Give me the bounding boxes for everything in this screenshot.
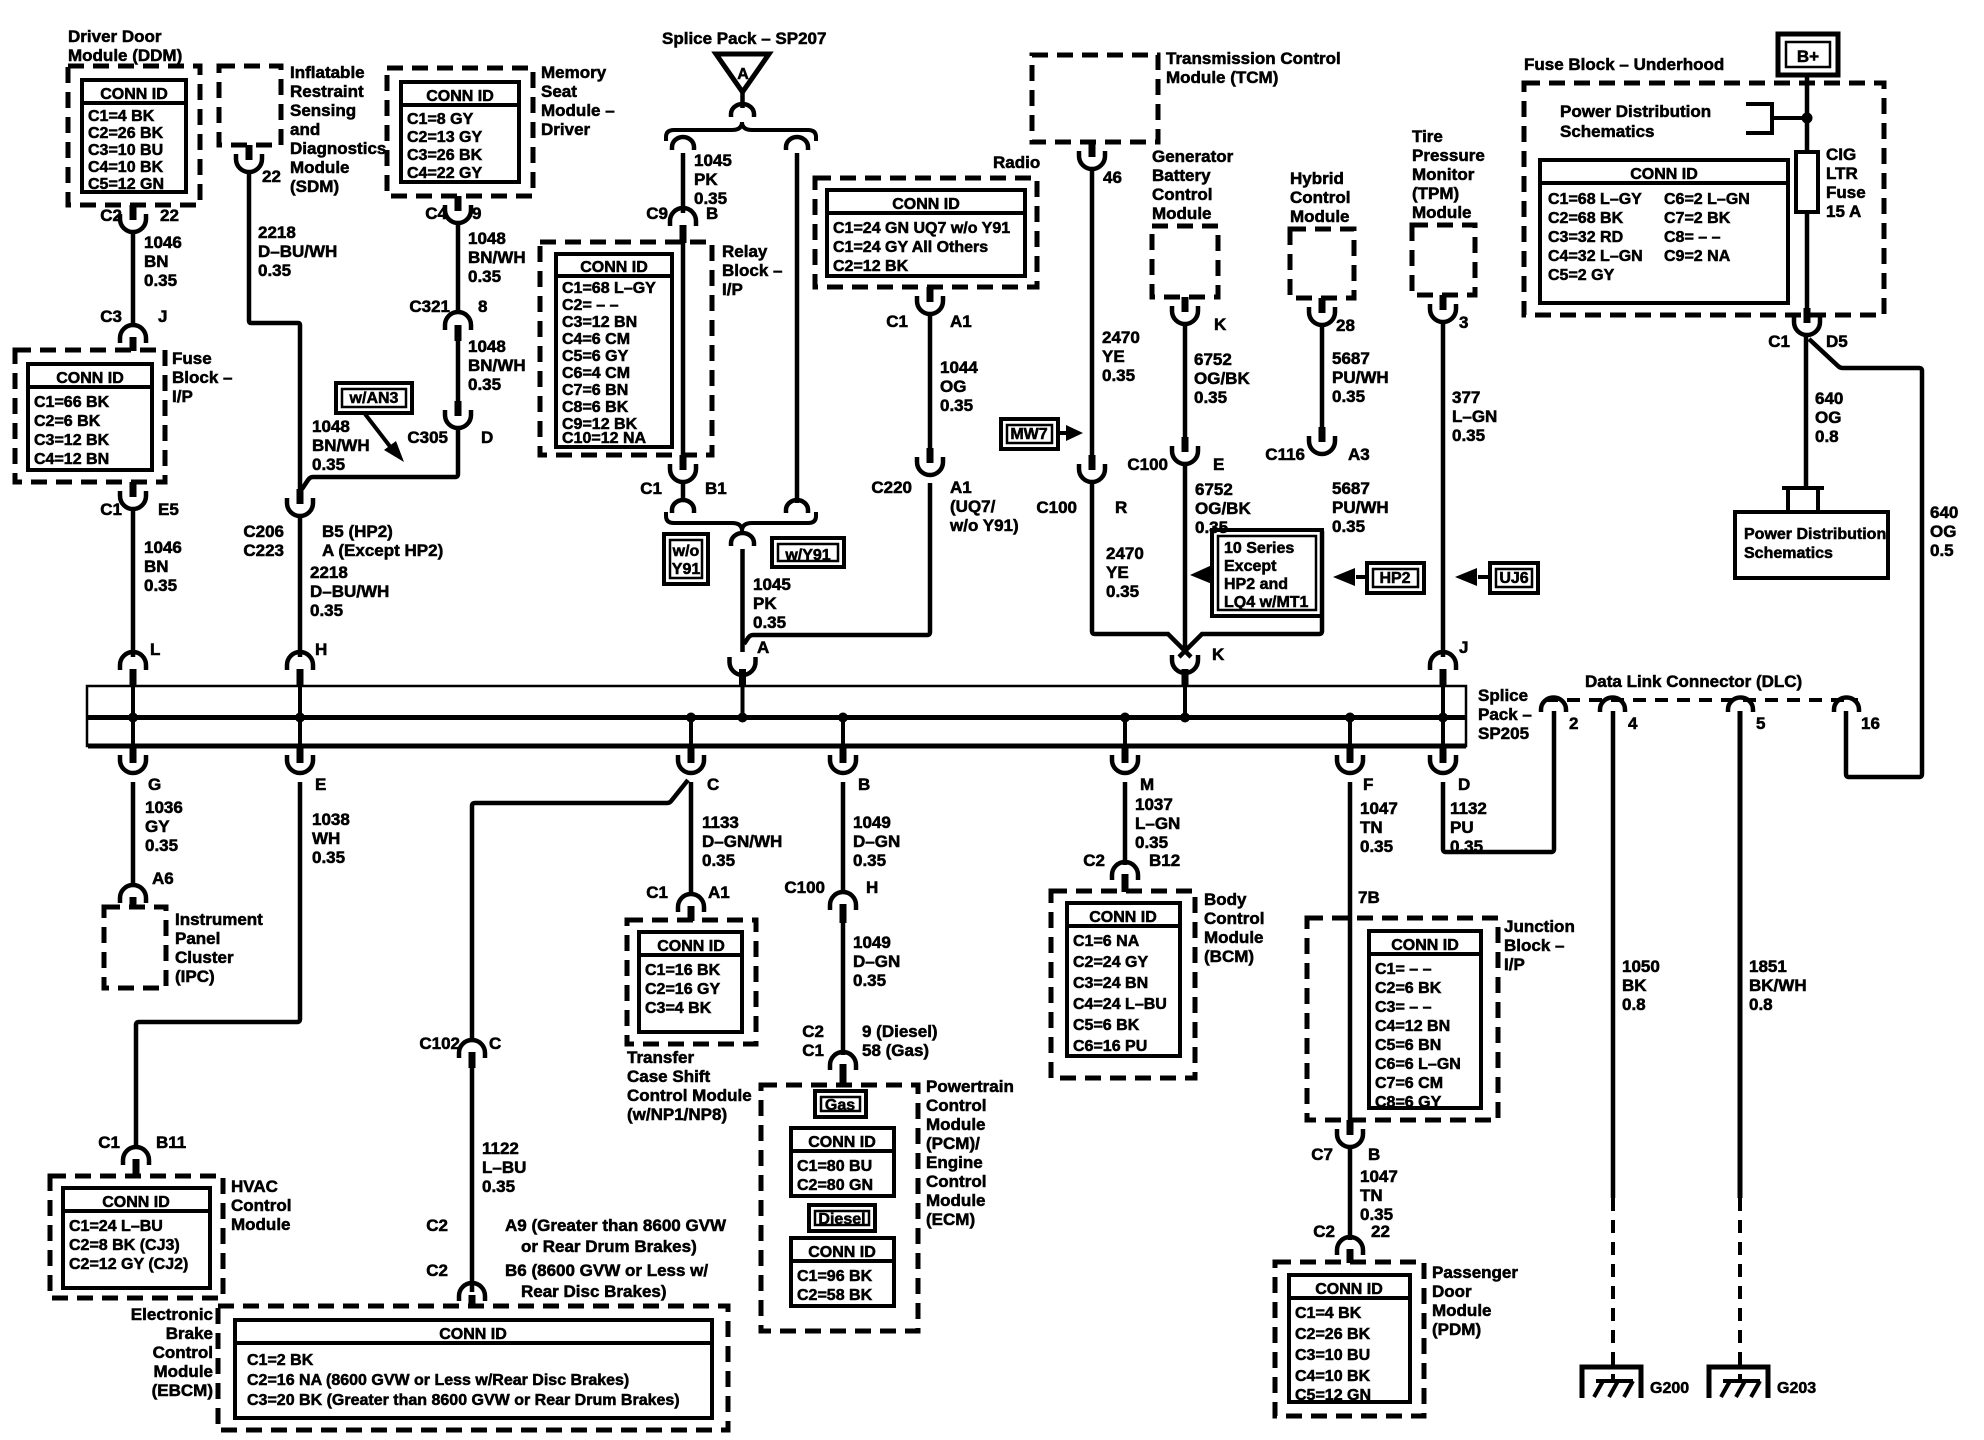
svg-text:0.35: 0.35	[1135, 833, 1168, 852]
EBCM CONN ID table	[235, 1320, 712, 1418]
svg-text:C1= – –: C1= – –	[1375, 961, 1432, 978]
wire 1038 WH	[136, 782, 300, 1146]
svg-text:640: 640	[1815, 389, 1843, 408]
wire 1048 BN/WH (lower)	[456, 341, 461, 401]
wire from C305 to C206 junction	[302, 428, 458, 489]
svg-text:0.35: 0.35	[1360, 837, 1393, 856]
svg-text:BN/WH: BN/WH	[312, 436, 370, 455]
Memory Seat CONN ID table	[401, 82, 519, 182]
svg-text:Fuse: Fuse	[172, 349, 212, 368]
svg-text:7B: 7B	[1358, 888, 1380, 907]
svg-text:C1: C1	[802, 1041, 824, 1060]
svg-text:0.35: 0.35	[310, 601, 343, 620]
power node B+ box	[1778, 34, 1838, 75]
svg-text:C1=4 BK: C1=4 BK	[88, 108, 155, 125]
svg-text:LQ4 w/MT1: LQ4 w/MT1	[1224, 594, 1309, 611]
svg-text:Control Module: Control Module	[627, 1086, 752, 1105]
svg-text:C8=6 GY: C8=6 GY	[1375, 1094, 1442, 1111]
svg-text:A1: A1	[950, 312, 972, 331]
svg-text:0.35: 0.35	[1450, 837, 1483, 856]
svg-text:Except: Except	[1224, 558, 1277, 575]
svg-text:OG/BK: OG/BK	[1194, 369, 1250, 388]
svg-text:and: and	[290, 120, 320, 139]
svg-text:C1=68 L–GY: C1=68 L–GY	[562, 280, 656, 297]
svg-text:Block –: Block –	[1504, 936, 1564, 955]
svg-text:0.35: 0.35	[1102, 366, 1135, 385]
svg-text:TN: TN	[1360, 1186, 1383, 1205]
svg-text:(IPC): (IPC)	[175, 967, 215, 986]
svg-text:Splice: Splice	[1478, 686, 1528, 705]
svg-text:K: K	[1212, 645, 1225, 664]
svg-text:D5: D5	[1826, 332, 1848, 351]
svg-text:Diesel: Diesel	[818, 1211, 865, 1228]
svg-text:377: 377	[1452, 388, 1480, 407]
svg-text:C1: C1	[646, 883, 668, 902]
svg-text:L–GN: L–GN	[1452, 407, 1497, 426]
brace upper (splits into two wires)	[666, 122, 816, 141]
option box 10 Series Except HP2 and LQ4 w/MT1	[1212, 530, 1322, 616]
bracket to power distribution (top)	[1746, 104, 1772, 133]
svg-text:Y91: Y91	[672, 561, 701, 578]
svg-text:CIG: CIG	[1826, 145, 1856, 164]
svg-text:C2=6 BK: C2=6 BK	[34, 413, 101, 430]
svg-text:C9=2 NA: C9=2 NA	[1664, 248, 1731, 265]
wire 1046 BN (to splice pack L)	[131, 509, 136, 657]
svg-text:CONN ID: CONN ID	[808, 1134, 876, 1151]
splice pack SP207 triangle A	[716, 54, 769, 92]
svg-text:H: H	[315, 640, 327, 659]
svg-text:A1: A1	[950, 478, 972, 497]
svg-text:C7: C7	[1311, 1145, 1333, 1164]
svg-text:L–BU: L–BU	[482, 1158, 526, 1177]
svg-text:C3= – –: C3= – –	[1375, 999, 1432, 1016]
svg-text:0.8: 0.8	[1749, 995, 1773, 1014]
wire 1045 PK left branch	[681, 153, 686, 213]
svg-text:G: G	[148, 775, 161, 794]
svg-text:(BCM): (BCM)	[1204, 947, 1254, 966]
svg-text:1122: 1122	[482, 1139, 519, 1158]
svg-text:OG: OG	[940, 377, 966, 396]
connector C100 / R	[1089, 455, 1096, 470]
svg-text:C2: C2	[1083, 851, 1105, 870]
svg-text:C2=26 BK: C2=26 BK	[88, 125, 164, 142]
svg-text:C4=22 GY: C4=22 GY	[407, 165, 482, 182]
svg-text:D–BU/WH: D–BU/WH	[310, 582, 389, 601]
svg-text:BN/WH: BN/WH	[468, 356, 526, 375]
connector C2 / 22 (PDM entry)	[1337, 1237, 1363, 1255]
connector C1 / B1 (relay block exit)	[680, 455, 687, 470]
svg-text:Control: Control	[926, 1096, 986, 1115]
Radio CONN ID table	[827, 190, 1025, 276]
svg-text:Module: Module	[926, 1115, 986, 1134]
svg-text:Control: Control	[1152, 185, 1212, 204]
svg-text:C8=6 BK: C8=6 BK	[562, 399, 629, 416]
svg-text:1047: 1047	[1360, 799, 1398, 818]
wire 1851 BK/WH (pin 5 to G203)	[1738, 711, 1743, 1198]
wire below fuse	[1805, 212, 1810, 308]
svg-text:(SDM): (SDM)	[290, 177, 339, 196]
svg-text:Splice Pack – SP207: Splice Pack – SP207	[662, 29, 826, 48]
svg-text:640: 640	[1930, 503, 1958, 522]
svg-text:4: 4	[1628, 714, 1638, 733]
svg-text:D–GN/WH: D–GN/WH	[702, 832, 782, 851]
svg-text:46: 46	[1103, 168, 1122, 187]
fuse CIG LTR 15A	[1796, 152, 1818, 212]
svg-text:C: C	[489, 1034, 501, 1053]
svg-text:C1=16 BK: C1=16 BK	[645, 962, 721, 979]
svg-text:C2=12 GY (CJ2): C2=12 GY (CJ2)	[69, 1256, 188, 1273]
svg-text:C1=24 GN UQ7 w/o Y91: C1=24 GN UQ7 w/o Y91	[833, 220, 1010, 237]
svg-text:C1=4 BK: C1=4 BK	[1295, 1305, 1362, 1322]
junction dots on busbar	[128, 713, 138, 723]
module Generator Battery Control Module dashed box	[1152, 226, 1218, 297]
module SDM dashed box	[219, 66, 281, 145]
ground G200	[1582, 1367, 1641, 1398]
svg-text:0.8: 0.8	[1622, 995, 1646, 1014]
module Junction Block dashed box	[1307, 918, 1498, 1120]
BCM CONN ID table	[1067, 903, 1180, 1056]
svg-text:Pack –: Pack –	[1478, 705, 1532, 724]
svg-text:CONN ID: CONN ID	[892, 196, 960, 213]
svg-text:Module (TCM): Module (TCM)	[1166, 68, 1278, 87]
svg-text:C5=6 GY: C5=6 GY	[562, 348, 629, 365]
Fuse Block I/P CONN ID table	[28, 364, 152, 470]
svg-text:1038: 1038	[312, 810, 350, 829]
svg-text:B: B	[706, 204, 718, 223]
svg-text:Seat: Seat	[541, 82, 577, 101]
svg-text:C5=2 GY: C5=2 GY	[1548, 267, 1615, 284]
svg-text:(PDM): (PDM)	[1432, 1320, 1481, 1339]
svg-text:0.35: 0.35	[468, 267, 501, 286]
wire 1044 OG horizontal into node A	[744, 483, 930, 644]
svg-text:Module: Module	[231, 1215, 291, 1234]
svg-text:Inflatable: Inflatable	[290, 63, 365, 82]
connector C206 C223 / B5 A	[297, 489, 304, 504]
svg-text:1048: 1048	[468, 229, 506, 248]
svg-text:Fuse: Fuse	[1826, 183, 1866, 202]
svg-text:22: 22	[262, 167, 281, 186]
DLC pin 4	[1600, 698, 1625, 713]
module Hybrid Control Module dashed box	[1290, 229, 1354, 298]
HVAC CONN ID table	[63, 1188, 210, 1288]
svg-text:I/P: I/P	[172, 387, 193, 406]
svg-text:1132: 1132	[1450, 799, 1487, 818]
svg-text:2: 2	[1569, 714, 1578, 733]
svg-text:C4=10 BK: C4=10 BK	[1295, 1368, 1371, 1385]
arrow box UJ6	[1490, 563, 1538, 593]
wire 1122 branch to left	[472, 780, 688, 1040]
svg-text:C10=12 NA: C10=12 NA	[562, 430, 646, 447]
svg-text:58 (Gas): 58 (Gas)	[862, 1041, 929, 1060]
svg-text:C7=6 CM: C7=6 CM	[1375, 1075, 1443, 1092]
svg-text:1037: 1037	[1135, 795, 1173, 814]
splice pack SP205 bus outline	[87, 686, 1466, 746]
svg-text:0.35: 0.35	[753, 613, 786, 632]
svg-text:Module: Module	[1290, 207, 1350, 226]
svg-text:Control: Control	[1204, 909, 1264, 928]
node F (bus exit)	[1347, 746, 1354, 763]
svg-text:1048: 1048	[468, 337, 506, 356]
svg-text:C116: C116	[1265, 445, 1305, 464]
svg-text:C2= – –: C2= – –	[562, 297, 619, 314]
Junction Block CONN ID table	[1369, 931, 1481, 1108]
svg-text:C7=2 BK: C7=2 BK	[1664, 210, 1731, 227]
connector C305 / D	[455, 401, 462, 416]
connector 46 (TCM exit)	[1089, 142, 1096, 157]
svg-text:Battery: Battery	[1152, 166, 1211, 185]
DLC pin 2	[1541, 698, 1566, 713]
svg-text:J: J	[158, 307, 167, 326]
svg-text:OG/BK: OG/BK	[1195, 499, 1251, 518]
DLC dashed line	[1545, 698, 1858, 702]
svg-text:Gas: Gas	[825, 1097, 855, 1114]
wire 1045 PK (brace to node A)	[740, 549, 745, 652]
svg-text:Pressure: Pressure	[1412, 146, 1485, 165]
svg-text:C1=2 BK: C1=2 BK	[247, 1352, 314, 1369]
svg-text:E5: E5	[158, 500, 179, 519]
wire 5687 PU/WH upper	[1320, 325, 1325, 427]
connector C1 / E5 (fuse block exit)	[130, 482, 137, 497]
svg-text:Module –: Module –	[541, 101, 615, 120]
svg-text:A: A	[737, 66, 749, 83]
svg-text:C1=68 L–GY: C1=68 L–GY	[1548, 191, 1642, 208]
svg-text:YE: YE	[1102, 347, 1125, 366]
wire pass-throughs in bus	[131, 686, 135, 746]
svg-text:D–BU/WH: D–BU/WH	[258, 242, 337, 261]
svg-text:B6 (8600 GVW or Less w/: B6 (8600 GVW or Less w/	[505, 1261, 708, 1280]
svg-text:A9 (Greater than 8600 GVW: A9 (Greater than 8600 GVW	[505, 1216, 727, 1235]
svg-text:Module: Module	[1412, 203, 1472, 222]
svg-text:8: 8	[478, 297, 487, 316]
svg-text:CONN ID: CONN ID	[439, 1326, 507, 1343]
svg-text:HVAC: HVAC	[231, 1177, 278, 1196]
svg-text:15 A: 15 A	[1826, 202, 1861, 221]
svg-text:10 Series: 10 Series	[1224, 540, 1294, 557]
wire through relay block	[681, 243, 686, 455]
svg-text:1047: 1047	[1360, 1167, 1398, 1186]
arrow from w/AN3 to C305 wire	[365, 414, 392, 449]
svg-text:C3=12 BK: C3=12 BK	[34, 432, 110, 449]
svg-text:Generator: Generator	[1152, 147, 1234, 166]
svg-text:Panel: Panel	[175, 929, 220, 948]
svg-text:D–GN: D–GN	[853, 952, 900, 971]
svg-text:Restraint: Restraint	[290, 82, 364, 101]
svg-text:Instrument: Instrument	[175, 910, 263, 929]
svg-text:C2: C2	[100, 206, 122, 225]
end curl left branch	[672, 137, 694, 150]
svg-text:w/o Y91): w/o Y91)	[949, 516, 1019, 535]
svg-text:C3: C3	[100, 307, 122, 326]
wire 377 L-GN	[1441, 322, 1446, 657]
svg-text:(EBCM): (EBCM)	[152, 1381, 213, 1400]
svg-text:1044: 1044	[940, 358, 978, 377]
svg-text:C2: C2	[802, 1022, 824, 1041]
wire 5687 PU/WH into node K from right	[1179, 531, 1322, 657]
bracket into Power Distribution Schematics box	[1782, 488, 1824, 510]
option box w/Y91	[772, 538, 844, 567]
svg-text:Data Link Connector (DLC): Data Link Connector (DLC)	[1585, 672, 1802, 691]
svg-text:B1: B1	[705, 479, 727, 498]
svg-text:C4=32 L–GN: C4=32 L–GN	[1548, 248, 1643, 265]
svg-text:C3=10 BU: C3=10 BU	[1295, 1347, 1370, 1364]
svg-text:OG: OG	[1930, 522, 1956, 541]
connector into PCM	[830, 1052, 856, 1070]
junction dot at B+ wire	[1802, 113, 1813, 124]
svg-text:CONN ID: CONN ID	[580, 259, 648, 276]
svg-text:w/AN3: w/AN3	[349, 390, 399, 407]
svg-text:C: C	[707, 775, 719, 794]
svg-text:0.5: 0.5	[1930, 541, 1954, 560]
connector C116 / A3	[1319, 427, 1326, 442]
wire right branch of SP207	[795, 153, 800, 503]
connector C1 / A1 (radio exit)	[927, 287, 934, 302]
svg-text:C1=80 BU: C1=80 BU	[797, 1158, 872, 1175]
svg-text:6752: 6752	[1194, 350, 1232, 369]
svg-text:Block –: Block –	[722, 261, 782, 280]
svg-text:0.35: 0.35	[468, 375, 501, 394]
svg-text:A (Except HP2): A (Except HP2)	[322, 541, 443, 560]
wire 2470 YE (TCM down)	[1090, 169, 1095, 455]
svg-text:Tire: Tire	[1412, 127, 1443, 146]
svg-text:C2: C2	[1313, 1222, 1335, 1241]
wire 640 OG 0.8 (down to power dist)	[1804, 335, 1809, 489]
svg-text:C305: C305	[407, 428, 448, 447]
svg-text:D–GN: D–GN	[853, 832, 900, 851]
svg-text:22: 22	[1371, 1222, 1390, 1241]
svg-text:Cluster: Cluster	[175, 948, 234, 967]
module PDM dashed box	[1275, 1262, 1424, 1416]
svg-text:Module: Module	[926, 1191, 986, 1210]
svg-text:C3=10 BU: C3=10 BU	[88, 142, 163, 159]
svg-text:5: 5	[1756, 714, 1765, 733]
svg-text:C102: C102	[419, 1034, 460, 1053]
svg-text:C206: C206	[243, 522, 284, 541]
option box w/o Y91	[664, 534, 708, 584]
wire 1049 D-GN upper	[841, 782, 846, 894]
svg-text:1048: 1048	[312, 417, 350, 436]
svg-text:MW7: MW7	[1010, 426, 1047, 443]
svg-text:C2=8 BK (CJ3): C2=8 BK (CJ3)	[69, 1237, 180, 1254]
svg-text:3: 3	[1459, 313, 1468, 332]
option tag Gas	[815, 1091, 866, 1117]
svg-text:Brake: Brake	[166, 1324, 213, 1343]
arrow box HP2	[1367, 563, 1424, 593]
svg-text:Transmission Control: Transmission Control	[1166, 49, 1341, 68]
svg-text:C2=16 GY: C2=16 GY	[645, 981, 720, 998]
svg-text:BK/WH: BK/WH	[1749, 976, 1807, 995]
svg-text:M: M	[1140, 775, 1154, 794]
svg-text:C4=10 BK: C4=10 BK	[88, 159, 164, 176]
svg-text:1049: 1049	[853, 813, 891, 832]
module TCM dashed box	[1032, 55, 1158, 142]
option box w/AN3	[336, 383, 412, 413]
svg-text:9 (Diesel): 9 (Diesel)	[862, 1022, 938, 1041]
svg-text:0.35: 0.35	[312, 455, 345, 474]
svg-text:PU/WH: PU/WH	[1332, 498, 1389, 517]
wire 6752 OG/BK upper	[1183, 324, 1188, 437]
svg-text:C3=32 RD: C3=32 RD	[1548, 229, 1623, 246]
svg-text:2470: 2470	[1102, 328, 1140, 347]
svg-text:Hybrid: Hybrid	[1290, 169, 1344, 188]
node B (bus exit)	[840, 746, 847, 763]
module Fuse Block I/P dashed box	[15, 350, 165, 482]
connector end curl under SP207	[731, 104, 754, 117]
svg-text:TN: TN	[1360, 818, 1383, 837]
svg-text:A1: A1	[708, 883, 730, 902]
wire 1047 TN upper	[1348, 782, 1353, 918]
connector C220 / A1	[927, 448, 934, 463]
svg-text:0.35: 0.35	[144, 576, 177, 595]
svg-text:C4: C4	[425, 204, 447, 223]
wire 1133 D-GN/WH down	[689, 782, 694, 894]
svg-text:Monitor: Monitor	[1412, 165, 1475, 184]
svg-text:PK: PK	[694, 170, 718, 189]
svg-text:HP2 and: HP2 and	[1224, 576, 1288, 593]
module EBCM dashed box	[218, 1306, 728, 1430]
svg-text:0.8: 0.8	[1815, 427, 1839, 446]
svg-text:C1: C1	[640, 479, 662, 498]
svg-text:2218: 2218	[258, 223, 296, 242]
svg-text:C4=6 CM: C4=6 CM	[562, 331, 630, 348]
DLC pin 5	[1728, 698, 1753, 713]
wire 2218 D-BU/WH (SDM down)	[249, 172, 300, 492]
svg-text:(UQ7/: (UQ7/	[950, 497, 996, 516]
ground G203	[1709, 1367, 1768, 1398]
svg-text:C2=6 BK: C2=6 BK	[1375, 980, 1442, 997]
svg-text:B+: B+	[1797, 47, 1819, 66]
svg-text:28: 28	[1336, 316, 1355, 335]
Transfer Case CONN ID table	[639, 932, 742, 1032]
svg-text:C2=58 BK: C2=58 BK	[797, 1287, 873, 1304]
wire 6752 OG/BK lower	[1183, 464, 1188, 652]
svg-text:C223: C223	[243, 541, 284, 560]
svg-text:Module: Module	[154, 1362, 214, 1381]
wire 1122 L-BU	[470, 1068, 475, 1292]
svg-text:1046: 1046	[144, 538, 182, 557]
svg-text:C6=2 L–GN: C6=2 L–GN	[1664, 191, 1750, 208]
svg-text:Module (DDM): Module (DDM)	[68, 46, 182, 65]
svg-text:C9: C9	[646, 204, 668, 223]
wire 1046 BN (DDM to fuse block)	[131, 232, 136, 325]
svg-text:C1: C1	[98, 1133, 120, 1152]
connector C1 / D5 (fuse block exit)	[1804, 308, 1811, 323]
svg-text:CONN ID: CONN ID	[808, 1244, 876, 1261]
svg-text:or Rear Drum Brakes): or Rear Drum Brakes)	[521, 1237, 697, 1256]
svg-text:Passenger: Passenger	[1432, 1263, 1518, 1282]
svg-text:Powertrain: Powertrain	[926, 1077, 1014, 1096]
svg-text:R: R	[1115, 498, 1127, 517]
svg-text:Radio: Radio	[993, 153, 1040, 172]
svg-text:C1: C1	[1768, 332, 1790, 351]
svg-text:PU/WH: PU/WH	[1332, 368, 1389, 387]
svg-text:C1=96 BK: C1=96 BK	[797, 1268, 873, 1285]
svg-text:0.35: 0.35	[144, 271, 177, 290]
connector 28 (hybrid exit)	[1319, 298, 1326, 313]
svg-text:1045: 1045	[753, 575, 791, 594]
DLC pin 16	[1834, 698, 1859, 713]
module Transfer Case dashed box	[627, 920, 756, 1044]
svg-text:D: D	[1458, 775, 1470, 794]
end curl below brace center	[731, 533, 754, 546]
svg-text:C2: C2	[426, 1261, 448, 1280]
svg-text:A6: A6	[152, 869, 174, 888]
wire from B+ into fuse block	[1805, 75, 1810, 152]
svg-text:OG: OG	[1815, 408, 1841, 427]
svg-text:1050: 1050	[1622, 957, 1660, 976]
svg-text:C3=20 BK (Greater than 8600 GV: C3=20 BK (Greater than 8600 GVW or Rear …	[247, 1392, 680, 1409]
svg-text:C6=16 PU: C6=16 PU	[1073, 1038, 1147, 1055]
svg-text:BN/WH: BN/WH	[468, 248, 526, 267]
